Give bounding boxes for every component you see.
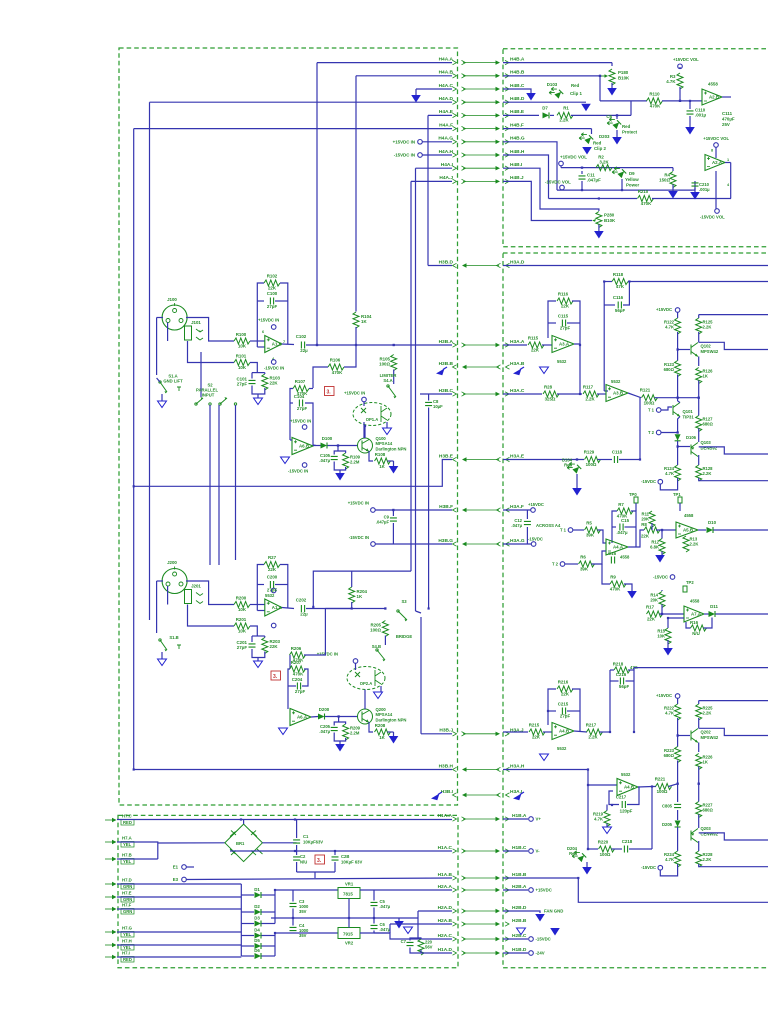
ground below OP2.A (374, 692, 383, 699)
svg-text:D203: D203 (599, 134, 610, 139)
svg-text:22K: 22K (270, 644, 279, 649)
wire Q100 emitter to R108 (369, 451, 373, 461)
wire (252, 635, 265, 637)
resistor R217 (586, 723, 603, 740)
svg-text:Clip 1: Clip 1 (570, 91, 583, 96)
svg-text:C1: C1 (303, 834, 309, 839)
svg-text:27pF: 27pF (237, 645, 248, 650)
wire feedback left (A1.B) (257, 283, 264, 341)
resistor R123 (675, 361, 681, 377)
wire (698, 718, 700, 728)
svg-text:27pF: 27pF (267, 588, 278, 593)
svg-text:+15VDC VOL: +15VDC VOL (703, 136, 729, 141)
svg-text:E1: E1 (173, 865, 179, 870)
svg-text:.001µ: .001µ (699, 187, 710, 192)
svg-text:.047µF: .047µF (376, 520, 390, 525)
wire R221 to rails (669, 784, 678, 787)
svg-text:R208: R208 (375, 723, 386, 728)
op-amp A1.B (265, 336, 282, 353)
potentiometer P180 (609, 69, 615, 85)
wire net H4A.G (422, 141, 452, 143)
transistor Q200 (358, 707, 407, 724)
wire VR2 common (348, 918, 350, 928)
capacitor C115 (558, 314, 571, 331)
svg-text:7815: 7815 (343, 892, 353, 897)
wire Q200 collector (364, 690, 366, 710)
power arrow terminating H4B.D (581, 104, 591, 112)
capacitor C16 (608, 551, 617, 564)
wire (257, 300, 264, 302)
svg-text:1K: 1K (361, 319, 367, 324)
wire base Q102 (678, 349, 690, 351)
svg-text:J100: J100 (167, 297, 177, 302)
wire (598, 459, 613, 461)
wire (257, 584, 264, 586)
svg-text:5532: 5532 (557, 746, 567, 751)
wire -15VDC feed (660, 478, 677, 490)
wire D3 cathode (262, 923, 276, 925)
svg-text:T 1: T 1 (648, 408, 655, 413)
svg-text:R218: R218 (613, 662, 624, 667)
wire to A1.B minus input (257, 346, 265, 348)
op-amp A7.A (684, 606, 704, 622)
resistor R126 (696, 368, 702, 384)
connector arrow H2A.C to H2B.C (453, 937, 510, 941)
capacitor C116 (613, 295, 626, 313)
wire (661, 591, 663, 593)
op-amp A6.B (292, 438, 313, 455)
svg-text:5532: 5532 (621, 772, 631, 777)
wire (548, 710, 556, 712)
wire C1 bottom (296, 845, 298, 851)
svg-text:H2B.C: H2B.C (512, 933, 527, 939)
wire net H2A.D (418, 910, 452, 912)
svg-text:H4A.D: H4A.D (439, 96, 454, 102)
svg-text:C218: C218 (622, 839, 633, 844)
svg-text:R121: R121 (640, 388, 651, 393)
svg-text:H3B.E: H3B.E (439, 453, 454, 459)
svg-text:H3A.B: H3A.B (510, 361, 525, 367)
svg-text:GRN: GRN (123, 909, 132, 914)
resistor R101 (234, 354, 250, 371)
power arrow below R208 (389, 736, 399, 744)
terminal -15VDC IN (A6.B) (302, 463, 307, 468)
blue arrow H3A.B (513, 367, 524, 375)
wire (698, 455, 700, 465)
svg-text:H4B.E: H4B.E (510, 109, 525, 115)
wire feedback left vertical ch2 (609, 670, 611, 732)
svg-text:27pF: 27pF (237, 382, 248, 387)
capacitor C110 (687, 108, 707, 118)
wire vertical E row to B row (630, 101, 632, 116)
svg-text:V+: V+ (536, 817, 542, 822)
junction J11 (133, 485, 135, 487)
wire T1 to Q101 (661, 407, 672, 410)
transistor Q102 (691, 343, 698, 357)
svg-text:Red: Red (564, 463, 572, 468)
svg-text:T 2: T 2 (552, 562, 559, 567)
junction J33 (677, 783, 679, 785)
wire Q103 collector to edge (699, 447, 768, 454)
wire net H3B.C (420, 393, 452, 395)
resistor R203 (262, 638, 268, 654)
wire (651, 510, 653, 512)
wire (698, 429, 700, 443)
junction J53 (579, 344, 581, 346)
svg-text:Yellow: Yellow (625, 177, 639, 182)
svg-text:TP0: TP0 (629, 492, 637, 497)
wire net H1A.C (230, 850, 452, 852)
svg-text:.047µ: .047µ (319, 458, 330, 463)
wire to A4.B (588, 784, 617, 786)
resistor R121 (640, 388, 658, 406)
wire (309, 388, 313, 390)
svg-text:R117: R117 (583, 385, 594, 390)
svg-text:C2B: C2B (341, 854, 349, 859)
svg-text:D7: D7 (542, 106, 548, 111)
svg-text:R221: R221 (655, 777, 666, 782)
svg-text:H7.I: H7.I (122, 951, 130, 956)
terminal +15VDC IN (A1.A) (271, 588, 276, 593)
svg-text:YEL: YEL (123, 859, 132, 864)
wire A1.B output (282, 343, 294, 346)
power arrow terminating H4B.C (526, 93, 536, 101)
resistor R30 (418, 939, 424, 955)
svg-text:470K: 470K (293, 672, 304, 677)
wire net H4A.F (134, 128, 452, 130)
svg-text:Protect: Protect (622, 130, 638, 135)
bridge rectifier BR1 (225, 824, 263, 862)
wire right rail to output row (698, 381, 700, 398)
wire (692, 189, 695, 191)
svg-text:TIP31: TIP31 (683, 415, 695, 420)
wire to R110 (600, 100, 647, 102)
wire feedback right (ch2 pre) (572, 689, 580, 732)
svg-text:R201: R201 (236, 617, 247, 622)
svg-text:R207: R207 (291, 660, 302, 665)
wire stub P180 bottom (611, 83, 613, 88)
svg-text:4.7K: 4.7K (665, 471, 674, 476)
resistor R5 (585, 521, 601, 538)
wire color tag RED (H7.I) (121, 957, 134, 963)
svg-text:-15VDC: -15VDC (641, 865, 656, 870)
wire net H4B.C (503, 89, 531, 93)
svg-text:-15VDC: -15VDC (653, 575, 668, 580)
svg-text:H4A.I: H4A.I (441, 162, 454, 168)
svg-text:D6: D6 (254, 948, 260, 953)
svg-text:R110: R110 (649, 92, 660, 97)
resistor R128 (696, 465, 702, 481)
svg-text:C118: C118 (612, 450, 623, 455)
wire (296, 851, 298, 855)
resistor R100 (234, 332, 250, 349)
svg-text:R7: R7 (618, 502, 624, 507)
wire R4 bottom (672, 185, 674, 192)
terminal +15VDC VOL (R3) (678, 64, 683, 69)
svg-text:2.2K: 2.2K (559, 118, 569, 123)
svg-text:C7: C7 (401, 939, 407, 944)
wire +15VDC VOL rail (561, 167, 670, 169)
wire stub to D203 (591, 129, 593, 134)
wire C11 bottom (581, 181, 583, 190)
junction J51 (603, 280, 605, 282)
svg-text:E3: E3 (173, 877, 179, 882)
wire (418, 937, 421, 939)
wire C110 bottom (689, 116, 691, 127)
op-amp A4.B (617, 779, 638, 796)
wire (388, 731, 394, 733)
wire R118 row to edge (628, 281, 768, 283)
junction J56 (611, 804, 613, 806)
wire A2.A output (725, 162, 731, 164)
svg-text:5532: 5532 (611, 379, 621, 384)
wire D7 to R1 (550, 114, 554, 116)
connector arrow H4A.F to H4B.F (453, 126, 510, 130)
svg-text:A3.A: A3.A (559, 342, 570, 347)
connector arrow H1A.B to H1B.B (453, 876, 510, 880)
svg-text:D100: D100 (322, 436, 333, 441)
stub (679, 67, 681, 69)
wire (574, 731, 587, 732)
wire stub to C110 (689, 101, 691, 109)
capacitor C4 (290, 927, 297, 930)
svg-text:+15VDC IN: +15VDC IN (258, 318, 279, 323)
wire H4A.J to A1.A output (313, 571, 411, 607)
svg-text:27pF: 27pF (267, 304, 278, 309)
svg-text:H2A.B: H2A.B (438, 918, 453, 924)
diode D205 (675, 821, 681, 828)
wire S2 drop 2 (218, 405, 220, 565)
regulator VR2 (338, 928, 360, 939)
resistor R16 (690, 620, 707, 636)
resistor R103 (262, 374, 268, 390)
wire C205/R209 bottom (334, 733, 345, 742)
wire R200 to A1.A (250, 604, 265, 606)
svg-text:3.: 3. (273, 674, 278, 680)
svg-text:YEL: YEL (123, 945, 132, 950)
wire net H4B.J to P280 wiper (503, 181, 592, 220)
capacitor C805 (674, 804, 681, 807)
svg-text:R28: R28 (544, 385, 553, 390)
connector arrow H1A.D to H1B.D (453, 951, 510, 955)
input arrow H7.C (105, 818, 117, 822)
opto-isolator OP1.A (353, 403, 391, 426)
power arrow below P280 (594, 231, 604, 239)
svg-text:470µF: 470µF (722, 117, 735, 122)
wire E1 (186, 866, 194, 868)
svg-text:-15VDC VOL: -15VDC VOL (700, 215, 725, 220)
svg-text:H3A.J: H3A.J (510, 728, 524, 734)
transistor Q202 (691, 729, 698, 743)
svg-text:4558: 4558 (684, 513, 694, 518)
resistor R109 (343, 453, 349, 469)
svg-text:C111: C111 (722, 111, 733, 116)
resistor R129 (584, 450, 601, 468)
svg-text:-15VDC IN: -15VDC IN (349, 535, 369, 540)
wire C105/R109 bottom (334, 462, 345, 471)
terminal T 1 (656, 408, 661, 413)
resistor R219 (604, 811, 610, 827)
junction J41 (294, 850, 296, 852)
power arrow 0V rail (394, 921, 404, 929)
resistor R216 (557, 680, 573, 697)
wiper arrow P280 (592, 219, 596, 222)
svg-text:27pF: 27pF (560, 714, 571, 719)
wire R9 left (602, 564, 610, 584)
ground below R203 (254, 661, 263, 668)
wire (374, 932, 390, 934)
wire (677, 698, 679, 704)
wire net H2B.C (503, 938, 528, 940)
wire stub to P180 (611, 63, 613, 66)
svg-text:C204: C204 (292, 677, 303, 682)
capacitor C204 (292, 677, 306, 694)
terminal -15VDC (ch2) (658, 865, 663, 870)
capacitor C2 (293, 857, 300, 860)
wire D9 to rail (621, 179, 623, 190)
svg-text:H3A.A: H3A.A (510, 339, 525, 345)
wire R125 top to edge (699, 314, 768, 316)
wire BR1 top (243, 820, 245, 825)
svg-text:B10K: B10K (618, 76, 630, 81)
capacitor C6 (371, 925, 378, 928)
wire vertical H4A.J drop (410, 181, 412, 571)
wire (290, 402, 293, 404)
wire (373, 908, 375, 919)
wire P280 bottom (598, 225, 600, 232)
wire net H3A.E (503, 459, 584, 461)
svg-text:+15VDC: +15VDC (656, 307, 672, 312)
svg-text:R107: R107 (295, 379, 306, 384)
resistor R201 (234, 617, 250, 634)
svg-text:R101: R101 (236, 354, 247, 359)
svg-text:2.2K: 2.2K (703, 857, 712, 862)
wire C12 top (526, 510, 528, 519)
junction J16 (599, 75, 601, 77)
resistor R205 (382, 621, 388, 637)
resistor R115 (528, 336, 544, 353)
terminal -15VDC (529, 937, 534, 942)
svg-text:22K: 22K (532, 735, 541, 740)
wire color tag YEL (H7.A) (121, 842, 134, 848)
wire feedback left (ch2 pre) (548, 689, 556, 725)
switch S2 posts (209, 403, 211, 405)
wire (373, 931, 375, 934)
wire (698, 841, 700, 851)
wire net H4A.H (422, 154, 452, 156)
wire (698, 398, 700, 416)
svg-text:C6: C6 (606, 114, 612, 119)
svg-text:H4A.H: H4A.H (439, 149, 454, 155)
svg-text:C202: C202 (296, 598, 307, 603)
ground below R219 (603, 827, 612, 834)
diode D11 (709, 611, 716, 617)
wire D6 cathode (262, 955, 276, 957)
resistor R215 (529, 723, 545, 740)
capacitor C205 (331, 727, 338, 730)
wire color tag YEL (H7.G) (121, 932, 134, 938)
svg-text:39K: 39K (580, 567, 589, 572)
svg-text:20K: 20K (650, 598, 658, 603)
wire net H4B.I to P280 (503, 168, 599, 211)
wire C8 down to channel2 (428, 408, 430, 609)
wire C105/R109 top (334, 451, 345, 455)
ground below R103 (254, 398, 263, 405)
wire feedback right (A4.A) (631, 511, 636, 547)
svg-text:N/U: N/U (692, 631, 700, 636)
wire net H1A.A (raw V+) (117, 819, 452, 821)
wire H7.B (117, 858, 158, 860)
terminal +15VDC (ch2) (675, 694, 680, 699)
junction J52 (628, 280, 630, 282)
wire (677, 827, 679, 851)
wire XLR shield down (156, 318, 158, 376)
svg-text:H2B.B: H2B.B (512, 918, 527, 924)
svg-text:DENB92: DENB92 (701, 446, 718, 451)
wire net H4B.E (503, 114, 539, 116)
wire A2.A to -15VDC VOL (715, 171, 717, 209)
connector arrow H4A.D to H4B.D (453, 100, 510, 104)
svg-text:27pF: 27pF (560, 326, 571, 331)
svg-text:J101: J101 (191, 320, 201, 325)
junction J17 (679, 100, 681, 102)
terminal +15VDC (H3A.F) (531, 508, 536, 513)
svg-text:H4B.D: H4B.D (510, 96, 525, 102)
svg-text:H4A.F: H4A.F (439, 122, 453, 128)
svg-text:H4B.J: H4B.J (510, 175, 524, 181)
wire emitter (698, 743, 700, 753)
wire (597, 393, 606, 395)
svg-text:Red: Red (593, 141, 602, 146)
resistor R108 (375, 452, 391, 469)
resistor R12 (659, 539, 665, 555)
junction J7 (428, 607, 430, 609)
power arrow below C6 (612, 137, 622, 145)
input board dashed border (119, 48, 458, 805)
resistor R208 (375, 723, 391, 740)
svg-text:10K: 10K (238, 365, 247, 370)
junction J14 (581, 167, 583, 169)
power arrow below C105 (335, 473, 345, 481)
svg-text:2.2K: 2.2K (585, 397, 595, 402)
svg-text:C16: C16 (608, 551, 617, 556)
wire (275, 584, 288, 586)
wire net H2A.B (390, 923, 452, 925)
svg-text:R5: R5 (586, 521, 592, 526)
svg-text:325Ω: 325Ω (545, 397, 556, 402)
wire net H4A.A (317, 62, 452, 64)
resistor R102 (264, 274, 280, 291)
svg-text:H2A.C: H2A.C (438, 933, 453, 939)
junction J1 (316, 344, 318, 346)
wire (573, 529, 584, 531)
resistor R14 (659, 592, 665, 608)
junction J38 (633, 731, 635, 733)
svg-text:H4B.G: H4B.G (510, 136, 525, 142)
wire R101 to R103 node (250, 363, 257, 373)
svg-text:MPSW42: MPSW42 (701, 349, 719, 354)
svg-text:7915: 7915 (343, 932, 353, 937)
wire net H4B.A (503, 62, 612, 64)
wire R106 right (344, 345, 356, 367)
svg-text:H7.D: H7.D (122, 878, 132, 883)
wire (698, 784, 700, 802)
wire feedback left (A6.B) (290, 389, 293, 441)
svg-text:C116: C116 (613, 295, 624, 300)
wire vertical H4B.B drop (599, 76, 601, 101)
wire net H3B.J (421, 733, 452, 735)
svg-text:H1B.D: H1B.D (512, 947, 527, 953)
